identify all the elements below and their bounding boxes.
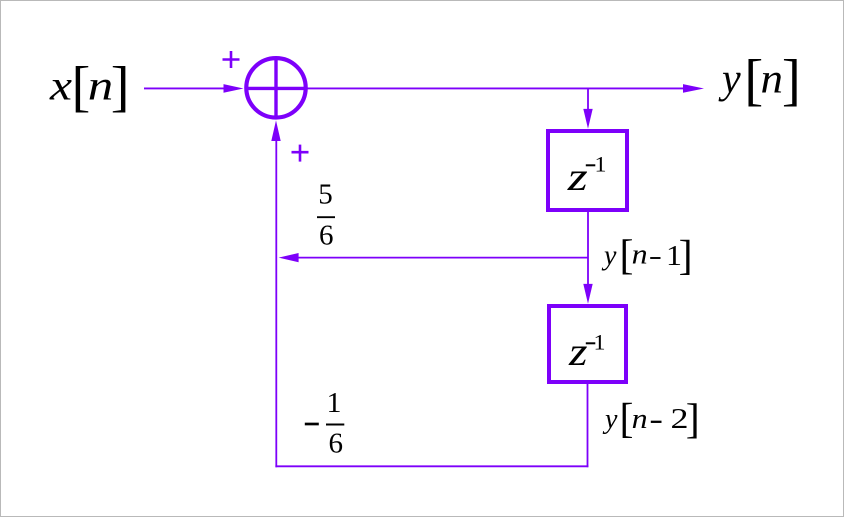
svg-text:n: n [632, 404, 648, 435]
svg-text:y: y [718, 56, 741, 102]
svg-text:z: z [567, 154, 589, 199]
svg-text:1: 1 [595, 151, 607, 176]
svg-text:y: y [601, 241, 617, 272]
svg-text:n: n [632, 240, 648, 271]
svg-text:6: 6 [329, 428, 344, 460]
svg-text:n: n [88, 63, 114, 109]
svg-text:]: ] [679, 234, 693, 280]
svg-text:6: 6 [319, 219, 334, 251]
svg-text:y: y [602, 404, 618, 435]
svg-text:]: ] [782, 49, 801, 112]
svg-text:]: ] [686, 397, 700, 443]
svg-text:1: 1 [594, 329, 606, 354]
svg-text:n: n [761, 56, 784, 102]
svg-text:]: ] [111, 56, 130, 118]
svg-text:1: 1 [327, 387, 342, 419]
svg-text:x: x [49, 63, 73, 109]
svg-text:z: z [568, 329, 588, 374]
svg-text:5: 5 [318, 179, 333, 211]
